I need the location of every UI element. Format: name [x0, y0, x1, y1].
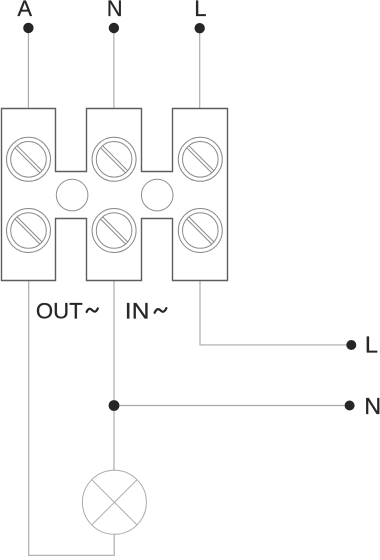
terminal dot A — [23, 23, 33, 33]
svg-text:N: N — [107, 0, 123, 21]
junction dot — [109, 400, 120, 411]
wire A vertical from terminal A to block — [27, 28, 29, 108]
terminal dot N right — [345, 401, 355, 411]
bridge hole between col1 and col2 — [56, 179, 88, 211]
svg-text:IN: IN — [125, 299, 150, 324]
screw terminal col2 bottom — [92, 209, 136, 253]
terminal dot L — [195, 23, 205, 33]
tilde after OUT — [87, 308, 98, 312]
screw terminal col1 bottom — [7, 209, 51, 253]
screw terminal col3 bottom — [178, 209, 222, 253]
wire L vertical from terminal L to block — [199, 28, 201, 108]
wire col3 down and right to L terminal — [200, 281, 351, 345]
bridge hole between col2 and col3 — [141, 179, 173, 211]
wire OUT left: block col1 down, along bottom to lamp bottom — [29, 281, 115, 556]
wire middle: block col2 down to lamp top — [113, 281, 115, 471]
tilde after IN — [155, 308, 167, 313]
svg-text:A: A — [17, 0, 32, 21]
svg-text:OUT: OUT — [36, 299, 83, 324]
svg-text:L: L — [194, 0, 206, 21]
wire N vertical from terminal N to block — [113, 28, 115, 108]
screw terminal col3 top — [178, 137, 222, 181]
lamp symbol — [82, 470, 146, 534]
svg-text:L: L — [365, 332, 378, 358]
terminal dot L right — [346, 340, 356, 350]
screw terminal col1 top — [7, 137, 51, 181]
terminal dot N — [109, 23, 119, 33]
wire junction horizontal to N terminal — [114, 405, 350, 407]
terminal block outline — [2, 109, 228, 281]
screw terminal col2 top — [92, 137, 136, 181]
svg-text:N: N — [364, 393, 380, 419]
